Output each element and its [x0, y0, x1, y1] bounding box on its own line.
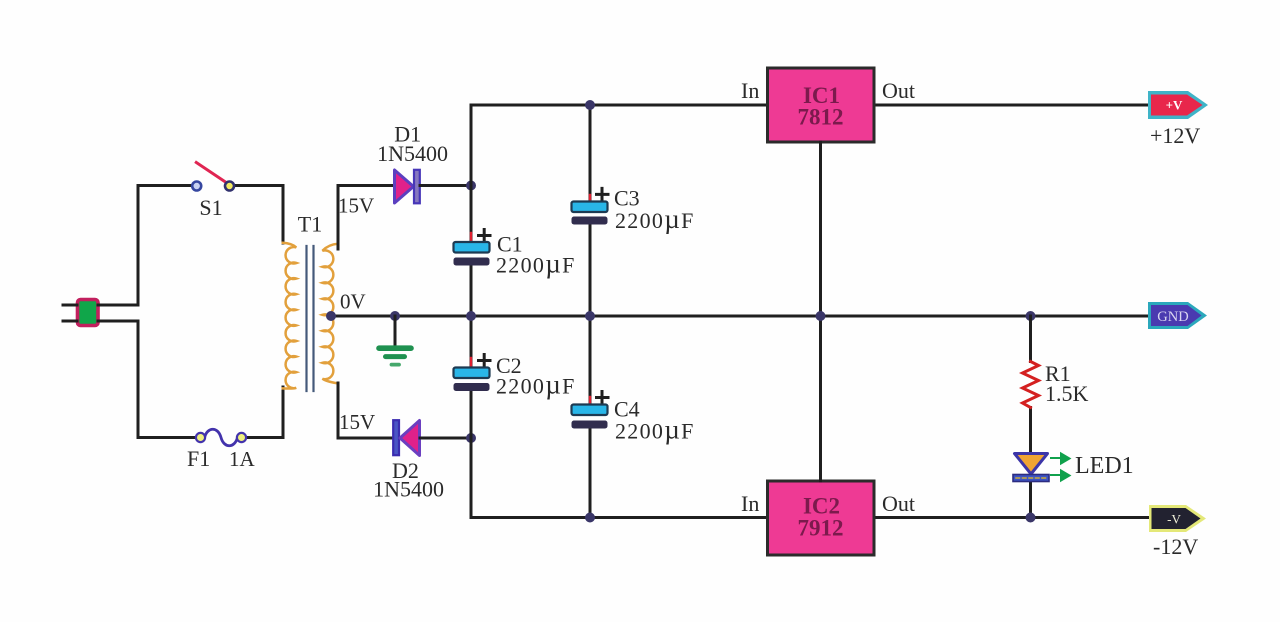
wire D2 anode to C2 column: [420, 437, 471, 440]
node R1 top mid rail: [1026, 311, 1036, 321]
svg-text:2200µF: 2200µF: [615, 415, 695, 445]
fuse F1: [196, 429, 246, 446]
svg-text:+12V: +12V: [1150, 123, 1200, 148]
wire fuse to transformer primary bottom: [247, 387, 284, 438]
connector +V: [1148, 91, 1208, 119]
node D2 junction: [466, 433, 476, 443]
transformer T1 primary coil: [283, 243, 297, 389]
svg-text:-12V: -12V: [1153, 534, 1198, 559]
wire IC ground pins: [819, 142, 822, 481]
wire secondary bottom 15V to D2: [338, 383, 394, 438]
svg-text:15V: 15V: [338, 194, 374, 218]
node transformer 0V tap: [326, 311, 336, 321]
node LED bottom rail: [1026, 513, 1036, 523]
svg-text:Out: Out: [882, 491, 915, 516]
wire plug bottom lead: [63, 320, 77, 323]
wire 0V tap to mid rail: [331, 315, 1148, 318]
node ground junction: [390, 311, 400, 321]
capacitor C2: [454, 355, 491, 392]
capacitor C1: [454, 230, 491, 266]
svg-text:In: In: [741, 491, 759, 516]
node C3 top rail: [585, 100, 595, 110]
diode D1 1N5400: [395, 170, 420, 204]
node IC pins mid rail: [816, 311, 826, 321]
regulator IC1 7812: [768, 68, 875, 142]
svg-text:S1: S1: [199, 195, 222, 220]
regulator IC2 7912: [768, 481, 875, 555]
svg-text:2200µF: 2200µF: [496, 249, 576, 279]
wire secondary top 15V to D1: [338, 186, 395, 250]
svg-text:+V: +V: [1166, 98, 1183, 113]
wire C1/C2 column: [470, 105, 473, 518]
mains plug P1: [78, 300, 99, 326]
svg-text:LED1: LED1: [1075, 453, 1134, 479]
wire switch to transformer primary top: [236, 186, 284, 244]
svg-text:1N5400: 1N5400: [373, 477, 444, 502]
wire bottom rail: [471, 516, 1151, 519]
wire C3/C4 column: [589, 105, 592, 518]
LED LED1: [1013, 454, 1049, 482]
svg-text:1.5K: 1.5K: [1045, 381, 1089, 406]
switch S1: [192, 163, 234, 191]
svg-text:GND: GND: [1157, 309, 1188, 325]
ground stem: [394, 316, 397, 346]
svg-text:7812: 7812: [798, 105, 844, 130]
wire R1/LED column: [1029, 316, 1032, 518]
svg-text:-V: -V: [1167, 512, 1181, 527]
wire D1 cathode to C1 column: [420, 184, 471, 187]
connector GND: [1148, 302, 1207, 329]
resistor R1: [1023, 362, 1039, 408]
diode D2 1N5400: [393, 420, 419, 455]
node C1 column mid rail: [466, 311, 476, 321]
transformer T1 core: [307, 246, 314, 391]
wire top rail: [471, 104, 1148, 107]
transformer T1 secondary coil: [322, 244, 338, 384]
connector -V: [1149, 505, 1206, 532]
svg-text:In: In: [741, 78, 759, 103]
svg-text:2200µF: 2200µF: [496, 370, 576, 400]
svg-text:F1: F1: [187, 446, 210, 471]
node D1 junction: [466, 181, 476, 191]
LED1 light arrow upper: [1051, 454, 1070, 464]
ground symbol: [379, 348, 411, 364]
svg-text:C3: C3: [614, 186, 640, 211]
node C4 bottom rail: [585, 513, 595, 523]
wire plug to upper rail (live): [98, 186, 192, 306]
svg-text:T1: T1: [298, 212, 322, 237]
svg-text:7912: 7912: [798, 516, 844, 541]
node C3/C4 mid rail: [585, 311, 595, 321]
wire plug to lower rail (neutral): [98, 321, 196, 438]
capacitor C4: [572, 392, 609, 429]
svg-text:1N5400: 1N5400: [377, 141, 448, 166]
capacitor C3: [572, 188, 609, 224]
svg-text:2200µF: 2200µF: [615, 204, 695, 234]
LED1 light arrow lower: [1051, 471, 1070, 481]
svg-text:1A: 1A: [229, 447, 256, 471]
svg-text:15V: 15V: [339, 410, 375, 434]
svg-text:Out: Out: [882, 78, 915, 103]
wire plug top lead: [63, 304, 77, 307]
svg-text:0V: 0V: [340, 290, 366, 314]
